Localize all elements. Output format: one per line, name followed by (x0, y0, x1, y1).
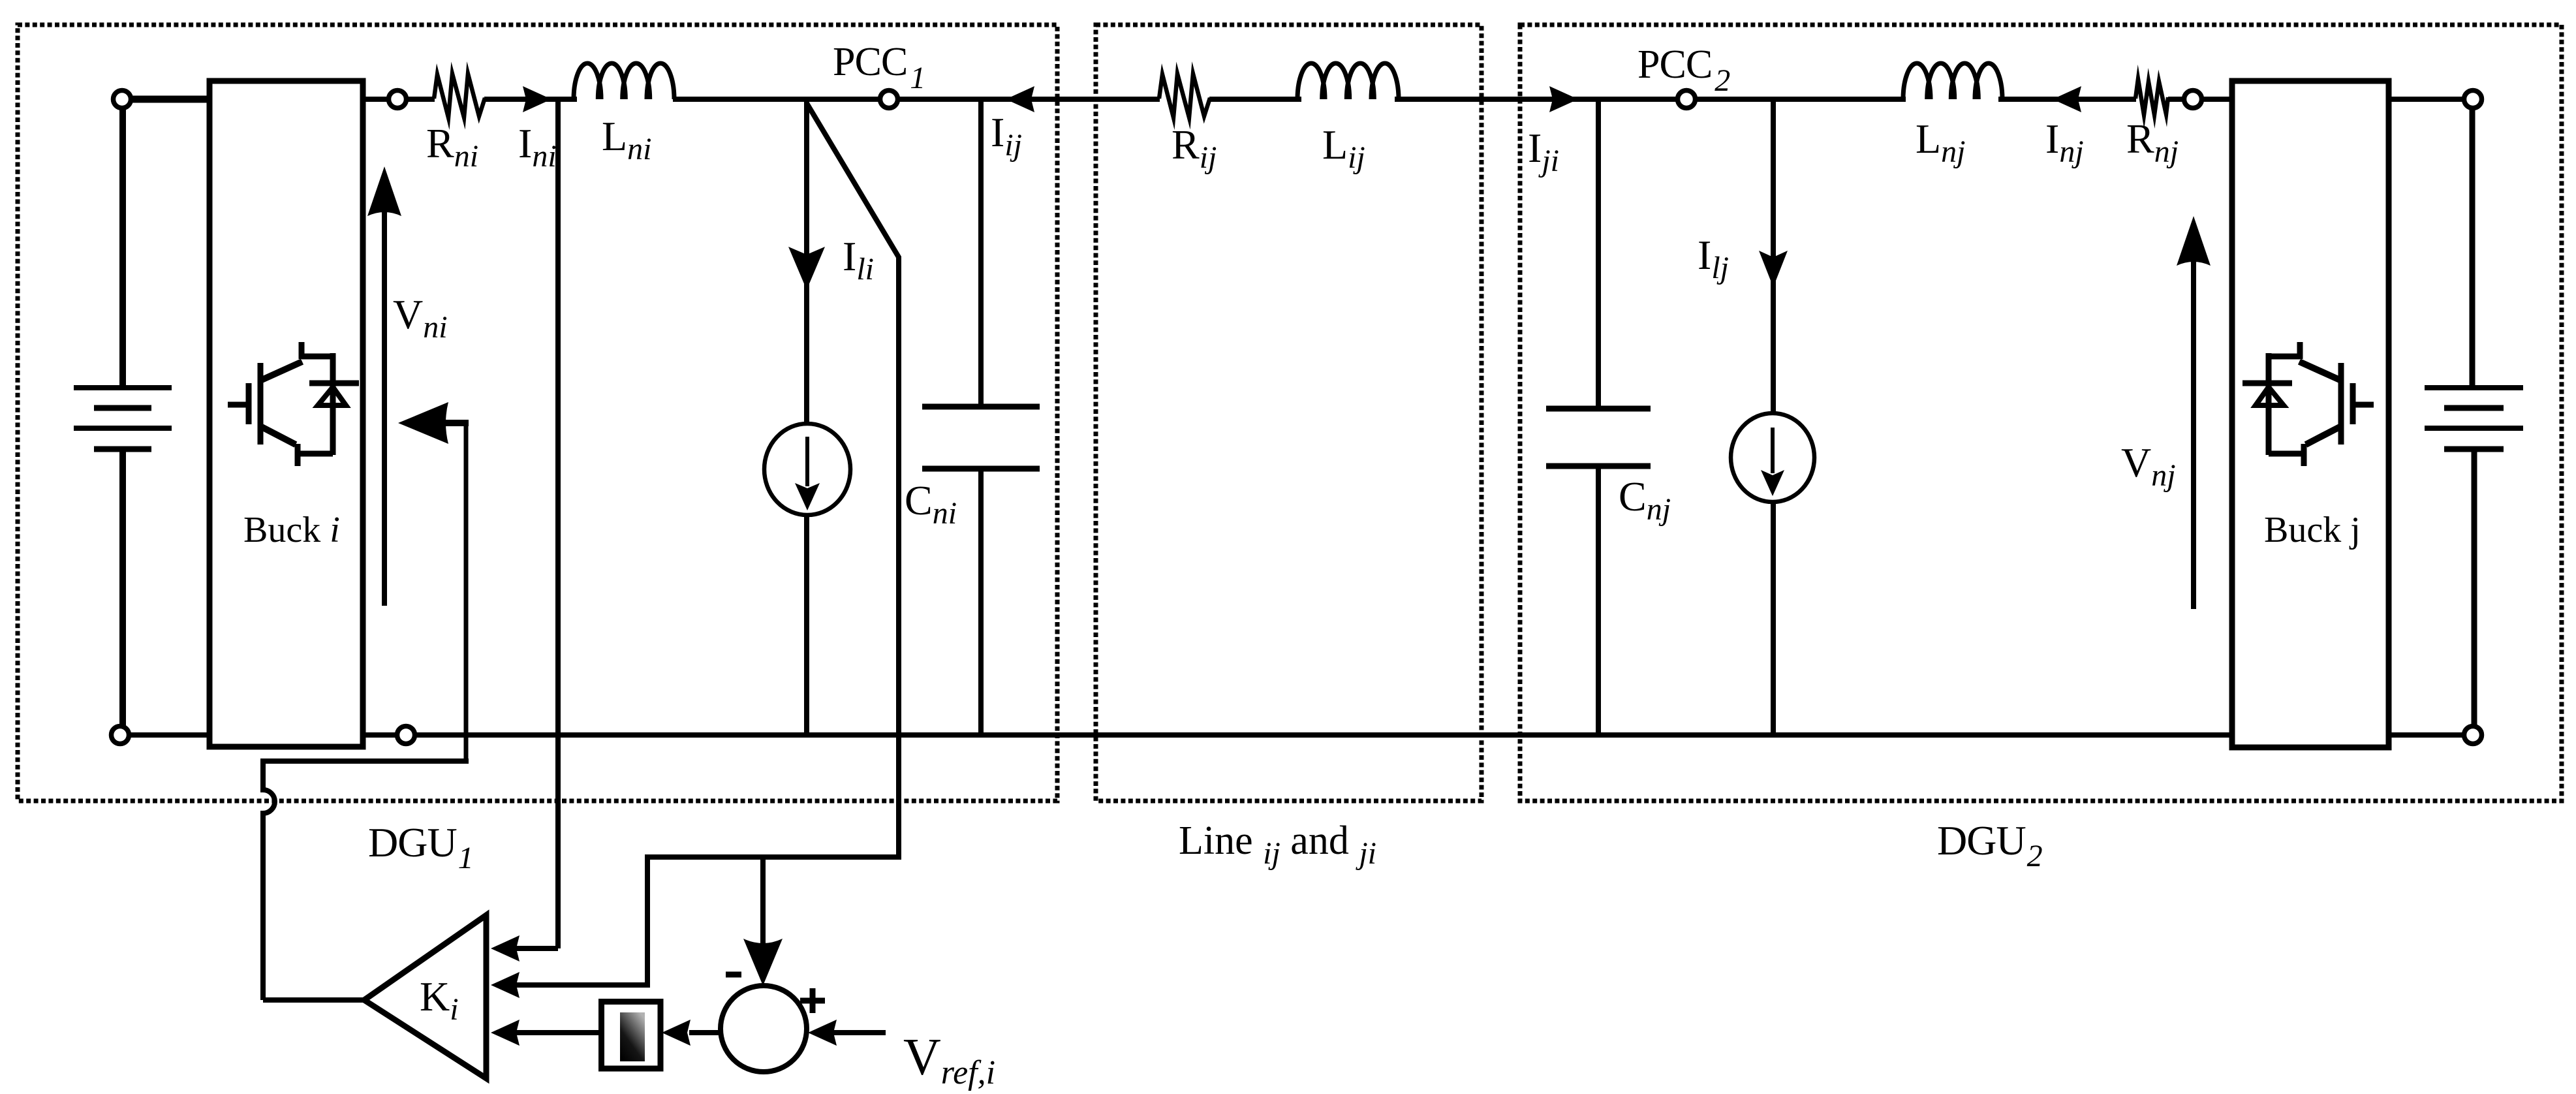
node Buck i output (389, 91, 407, 108)
inductor Lni (574, 63, 674, 99)
wire: current source i branch bottom (804, 511, 809, 735)
wire: current source j branch bottom (1771, 501, 1776, 735)
resistor Rij (1159, 74, 1210, 117)
wire: V tap into summer (760, 857, 766, 943)
resistor Rnj (2135, 79, 2168, 115)
capacitor Cnj (1546, 409, 1651, 466)
arrow Ilj (down) (1759, 251, 1788, 287)
IGBT Q inside Buck i (228, 342, 359, 466)
amplifier Ki triangle (364, 915, 486, 1078)
Line ij/ji dashed boundary box (1096, 25, 1482, 801)
plus sign at summer (800, 998, 825, 1004)
node terminal bottom-left (112, 727, 129, 744)
wire: Buck i output to resistor Rni (363, 97, 435, 102)
wire: Ki output up to Buck gate (464, 423, 469, 761)
capacitor Cni (922, 407, 1040, 469)
gradient block outer box (602, 1002, 661, 1069)
wire: capacitor Cni bottom leg (978, 469, 984, 735)
wire: capacitor Cni top leg (978, 99, 984, 407)
node terminal bottom-right (2464, 727, 2482, 744)
wire: gate drive stub (442, 420, 469, 426)
Vnj annotation arrow line (2191, 258, 2196, 609)
arrow into Buck i gate (398, 402, 448, 444)
arrow Ini (rightward) (523, 86, 551, 112)
Buck i converter box (209, 81, 363, 747)
node terminal top-right (2464, 91, 2482, 108)
arrow Iji (rightward) (1549, 86, 1578, 112)
inductor Lij (1297, 63, 1399, 99)
wire: gradient block to Ki (514, 1030, 601, 1035)
arrow into summer minus input (743, 939, 783, 986)
gradient block inner fill (620, 1012, 645, 1061)
wire: Lij to PCC2 (1395, 97, 1906, 102)
wire: battery j top lead (2470, 99, 2475, 389)
Vni annotation arrow line (382, 209, 387, 606)
battery source j (2425, 388, 2523, 449)
node Buck i bottom (397, 727, 415, 744)
node PCC1 (880, 91, 898, 108)
wire: Lni to PCC1 to line (673, 97, 1160, 102)
wire: Rnj to Buck j (2168, 97, 2232, 102)
node PCC2 (1678, 91, 1696, 108)
Buck j converter box (2232, 81, 2389, 747)
arrow Iij (leftward) (1006, 86, 1034, 112)
wire: battery j bottom lead (2472, 446, 2477, 735)
wire: battery i bottom lead (119, 446, 126, 735)
arrow Vref into summer (808, 1020, 837, 1046)
current source Ilj circle (1731, 413, 1814, 502)
node junction diagonal tap at PCC1 (807, 103, 899, 854)
wire: Ini feedback into Ki (514, 946, 558, 951)
wire: bottom rail (120, 732, 2473, 738)
wire: summer to gradient block (689, 1030, 722, 1035)
arrow into Ki input 2 (491, 972, 520, 998)
current source Ili circle (764, 424, 850, 515)
node Buck j input (2184, 91, 2202, 108)
wire: Rij to Lij (1209, 97, 1301, 102)
wire: V tap route to Ki and summer (514, 257, 899, 985)
current source Ili inner arrow (805, 437, 809, 486)
resistor Rni (434, 74, 485, 117)
wire: left terminal to Buck i (122, 96, 209, 103)
arrow into Ki input 3 (491, 1020, 520, 1046)
arrow into Ki input 1 (491, 935, 520, 961)
wire: Ki output run (apex leftward) (263, 997, 364, 1003)
svg-text:Buck j: Buck j (2264, 510, 2361, 550)
current source Ilj inner arrow (1771, 428, 1775, 473)
wire: capacitor Cnj top leg (1596, 99, 1601, 409)
wire: Rni to Lni with Ini tap (484, 97, 577, 102)
wire: current source j branch top (1771, 99, 1776, 414)
svg-text:Buck i: Buck i (243, 510, 340, 550)
inductor Lnj (1903, 63, 2002, 99)
wire: battery i top lead (119, 99, 126, 389)
wire: Ki output up leg with border hop (263, 760, 275, 1000)
wire: current source i branch top (804, 99, 809, 428)
wire: Vref into summer (830, 1030, 886, 1035)
Vnj annotation arrowhead (2177, 216, 2211, 266)
node terminal top-left (114, 91, 131, 108)
wire: capacitor Cnj bottom leg (1596, 466, 1601, 735)
arrow Ili (down) (788, 247, 825, 290)
wire: Ki output horizontal under DGU1 (260, 758, 469, 764)
wire: Buck j to right terminal (2389, 97, 2473, 102)
minus sign at summer (726, 972, 741, 978)
arrow into gradient block (662, 1020, 691, 1046)
IGBT Q inside Buck j (2242, 342, 2374, 466)
DGU2 dashed boundary box (1520, 25, 2562, 801)
wire: Ini measurement drop (555, 99, 561, 948)
DGU1 dashed boundary box (18, 25, 1057, 801)
wire: Lnj to Rnj (1998, 97, 2136, 102)
battery source i (74, 388, 172, 449)
Vni annotation arrowhead (367, 166, 401, 216)
arrow Inj (leftward) (2053, 86, 2081, 112)
summing junction circle (721, 986, 807, 1072)
